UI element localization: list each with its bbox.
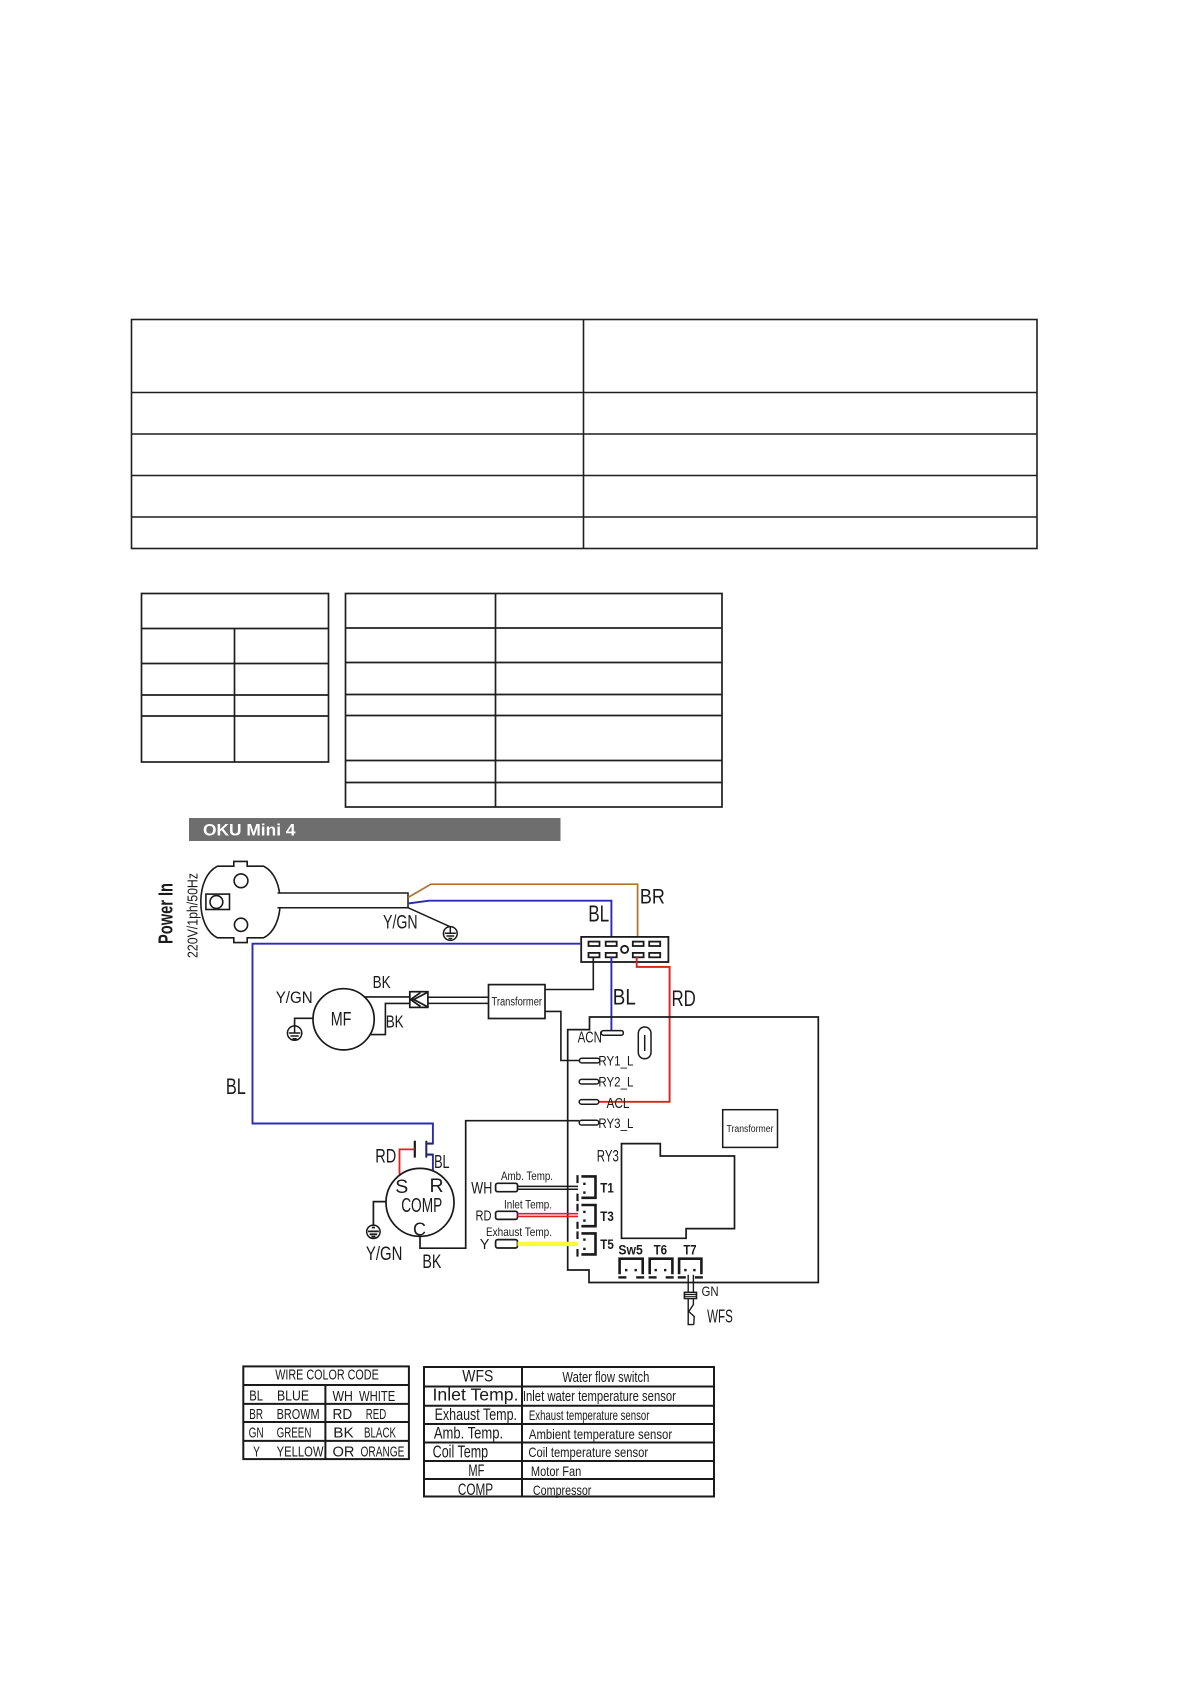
svg-text:MF: MF <box>468 1461 484 1480</box>
svg-text:T6: T6 <box>654 1243 668 1258</box>
svg-text:Inlet Temp.: Inlet Temp. <box>433 1384 519 1404</box>
svg-text:BK: BK <box>422 1251 441 1273</box>
label RY1_L <box>598 1053 633 1069</box>
svg-text:RY3_L: RY3_L <box>598 1115 633 1131</box>
svg-text:Water flow switch: Water flow switch <box>562 1369 649 1386</box>
svg-text:BK: BK <box>373 972 391 992</box>
connector T5 <box>581 1233 595 1254</box>
label Sw5 <box>618 1243 643 1258</box>
Sw5 pin dashes <box>618 1276 644 1278</box>
svg-text:RD: RD <box>476 1208 492 1224</box>
svg-text:RY2_L: RY2_L <box>598 1074 633 1090</box>
label WFS <box>707 1307 733 1327</box>
water flow switch WFS <box>688 1299 694 1325</box>
label BL top <box>588 901 609 927</box>
svg-text:Exhaust temperature sensor: Exhaust temperature sensor <box>529 1407 650 1423</box>
svg-text:Amb. Temp.: Amb. Temp. <box>501 1169 553 1183</box>
wire Y Exhaust to T5 <box>518 1242 579 1246</box>
svg-text:WFS: WFS <box>462 1367 493 1386</box>
svg-text:WH: WH <box>471 1179 492 1197</box>
svg-text:BL: BL <box>588 901 609 927</box>
svg-text:Y/GN: Y/GN <box>383 913 418 934</box>
wire MF to ground <box>295 1018 313 1026</box>
label GN <box>702 1283 719 1299</box>
svg-text:R: R <box>430 1175 444 1197</box>
T7 pin dashes <box>678 1276 703 1278</box>
wires T7 to GN connector <box>688 1275 693 1293</box>
wire BK MF top to connector <box>364 996 410 998</box>
svg-text:Exhaust Temp.: Exhaust Temp. <box>435 1405 517 1424</box>
svg-text:T7: T7 <box>683 1243 696 1258</box>
svg-text:Ambient temperature sensor: Ambient temperature sensor <box>529 1426 672 1442</box>
T6 pins <box>655 1269 667 1271</box>
svg-text:OR: OR <box>333 1445 355 1461</box>
T7 pins <box>684 1269 695 1271</box>
svg-text:Inlet Temp.: Inlet Temp. <box>504 1198 552 1212</box>
ground symbol at MF <box>287 1026 301 1040</box>
control board U1 outline <box>568 1017 819 1283</box>
pad RY3_L <box>579 1120 599 1125</box>
wire BK compressor C to RY3_L <box>420 1121 579 1249</box>
svg-text:Transformer: Transformer <box>727 1124 775 1135</box>
T3 pins <box>583 1211 585 1222</box>
svg-text:Exhaust Temp.: Exhaust Temp. <box>486 1225 552 1239</box>
label BL board <box>613 985 636 1010</box>
svg-text:Y/GN: Y/GN <box>366 1244 403 1265</box>
twin wires connector to transformer <box>428 997 489 1003</box>
wire BL blue from cable to terminal block <box>408 901 611 942</box>
label RY2_L <box>598 1074 633 1090</box>
sensor plug Exhaust <box>496 1240 518 1248</box>
svg-text:RED: RED <box>366 1407 386 1423</box>
label Y sensor <box>480 1237 490 1253</box>
svg-text:YELLOW: YELLOW <box>277 1445 324 1461</box>
svg-text:T5: T5 <box>600 1237 614 1252</box>
power cable <box>277 893 408 908</box>
svg-text:OKU Mini 4: OKU Mini 4 <box>203 821 296 840</box>
svg-text:Amb. Temp.: Amb. Temp. <box>434 1424 503 1443</box>
ground symbol at cable <box>443 927 457 941</box>
svg-text:WFS: WFS <box>707 1307 733 1327</box>
wire BR brown from cable to terminal block <box>408 884 638 941</box>
capacitor C1 left plate <box>414 1141 416 1158</box>
ground symbol at COMP <box>367 1225 380 1238</box>
dashed pin strip for T1 T3 T5 <box>576 1175 578 1257</box>
label RY3 <box>597 1147 619 1165</box>
twin wire Amb to T1 <box>518 1186 579 1189</box>
label RY3_L <box>598 1115 633 1131</box>
svg-text:BL: BL <box>613 985 636 1010</box>
svg-text:RY1_L: RY1_L <box>598 1053 633 1069</box>
relay RY3 outline <box>622 1144 735 1239</box>
connector K1 (wire splice) <box>410 992 428 1008</box>
svg-text:BR: BR <box>640 886 665 909</box>
connector T3 <box>581 1205 595 1226</box>
connector T6 <box>650 1259 673 1275</box>
svg-text:GREEN: GREEN <box>277 1426 312 1442</box>
svg-text:Coil temperature sensor: Coil temperature sensor <box>528 1444 648 1460</box>
svg-text:RY3: RY3 <box>597 1147 619 1165</box>
label RD sensor <box>476 1208 492 1224</box>
svg-text:BLACK: BLACK <box>364 1426 396 1442</box>
label BK compressor <box>422 1251 441 1273</box>
label Amb. Temp. <box>501 1169 553 1183</box>
label RD compressor <box>375 1145 396 1167</box>
svg-text:Sw5: Sw5 <box>618 1243 643 1258</box>
plug pin bottom <box>234 918 247 931</box>
pad ACN <box>601 1031 623 1036</box>
svg-text:ACN: ACN <box>578 1030 602 1047</box>
svg-text:Y/GN: Y/GN <box>276 989 313 1007</box>
label Y/GN cable <box>383 913 418 934</box>
svg-text:COMP: COMP <box>401 1195 442 1217</box>
svg-text:BR: BR <box>249 1407 263 1423</box>
svg-text:WIRE COLOR CODE: WIRE COLOR CODE <box>275 1368 379 1384</box>
svg-text:WH: WH <box>333 1389 353 1405</box>
svg-text:GN: GN <box>702 1283 719 1299</box>
svg-text:BK: BK <box>386 1011 404 1031</box>
transformer TR1 <box>489 985 546 1019</box>
compressor COMP <box>386 1168 454 1239</box>
svg-text:BL: BL <box>226 1074 246 1099</box>
svg-text:Compressor: Compressor <box>533 1482 592 1498</box>
connector Sw5 <box>620 1259 643 1275</box>
wire RD terminal to ACL <box>599 957 670 1102</box>
label BL compressor <box>434 1152 450 1172</box>
sensor plug Amb <box>496 1183 518 1191</box>
svg-text:ACL: ACL <box>607 1096 630 1112</box>
label BR <box>640 886 665 909</box>
label ACL <box>607 1096 630 1112</box>
wire BL terminal to ACN <box>610 957 612 1030</box>
connector GN <box>684 1292 696 1298</box>
connector T1 <box>581 1176 595 1197</box>
fuse F1 <box>638 1027 651 1059</box>
label 220V/1ph/50Hz <box>185 873 202 958</box>
svg-text:T3: T3 <box>600 1209 614 1224</box>
svg-text:Inlet water temperature sensor: Inlet water temperature sensor <box>523 1389 676 1405</box>
wire transformer secondary to RY1_L <box>545 1011 580 1060</box>
svg-text:Y: Y <box>253 1445 260 1461</box>
svg-text:COMP: COMP <box>458 1480 493 1499</box>
svg-text:RD: RD <box>672 986 696 1011</box>
T5 pins <box>583 1238 585 1250</box>
label BL left loop <box>226 1074 246 1099</box>
svg-text:WHITE: WHITE <box>359 1389 395 1405</box>
svg-text:ORANGE: ORANGE <box>361 1445 405 1461</box>
label BK bottom <box>386 1011 404 1031</box>
label ACN <box>578 1030 602 1047</box>
label T6 <box>654 1243 668 1258</box>
svg-text:T1: T1 <box>600 1181 614 1196</box>
label Exhaust Temp. <box>486 1225 552 1239</box>
label T1 <box>600 1181 614 1196</box>
svg-text:220V/1ph/50Hz: 220V/1ph/50Hz <box>185 873 202 958</box>
svg-text:RD: RD <box>333 1407 353 1423</box>
twin wire RD Inlet to T3 <box>518 1214 579 1217</box>
pad ACL <box>579 1100 599 1105</box>
motor fan MF <box>313 989 374 1050</box>
pad RY2_L <box>579 1079 599 1084</box>
label BK top <box>373 972 391 992</box>
label Y/GN motor <box>276 989 313 1007</box>
svg-text:Coil Temp: Coil Temp <box>433 1442 489 1462</box>
svg-text:Y: Y <box>480 1237 490 1253</box>
T6 pin dashes <box>649 1276 674 1278</box>
plug pin top <box>234 874 248 888</box>
wire Y/GN from cable to earth <box>408 908 450 927</box>
pad RY1_L <box>579 1058 599 1063</box>
wire BK terminal to transformer primary <box>545 957 593 989</box>
label Power In <box>156 883 178 944</box>
svg-text:RD: RD <box>375 1145 396 1167</box>
label Y/GN compressor <box>366 1244 403 1265</box>
T1 pins <box>583 1183 585 1194</box>
svg-text:BK: BK <box>333 1426 354 1442</box>
power plug P1 body <box>201 861 280 942</box>
svg-text:MF: MF <box>331 1010 352 1031</box>
svg-text:BROWM: BROWM <box>277 1407 320 1423</box>
capacitor C1 right plate <box>426 1141 433 1158</box>
wire BK MF bottom to connector <box>370 1003 410 1034</box>
plug earth contact <box>206 894 230 909</box>
svg-text:Transformer: Transformer <box>492 997 543 1009</box>
label T5 <box>600 1237 614 1252</box>
label WH <box>471 1179 492 1197</box>
label Inlet Temp. <box>504 1198 552 1212</box>
transformer TR2 on board <box>723 1110 778 1148</box>
wire BL loop terminal to compressor capacitor <box>253 944 582 1171</box>
wire COMP to ground <box>373 1202 386 1226</box>
connector T7 <box>679 1259 701 1275</box>
Sw5 pins <box>625 1269 637 1271</box>
svg-text:Motor Fan: Motor Fan <box>531 1463 581 1479</box>
svg-text:BLUE: BLUE <box>277 1389 309 1405</box>
wire RD capacitor to compressor S <box>400 1149 415 1174</box>
label RD board <box>672 986 696 1011</box>
svg-text:GN: GN <box>249 1426 264 1442</box>
svg-text:BL: BL <box>249 1389 263 1405</box>
svg-text:Power In: Power In <box>156 883 178 944</box>
label T7 <box>683 1243 696 1258</box>
label T3 <box>600 1209 614 1224</box>
terminal block TB1 <box>581 937 668 962</box>
svg-text:C: C <box>413 1219 426 1239</box>
svg-text:BL: BL <box>434 1152 450 1172</box>
sensor plug Inlet <box>496 1211 518 1219</box>
